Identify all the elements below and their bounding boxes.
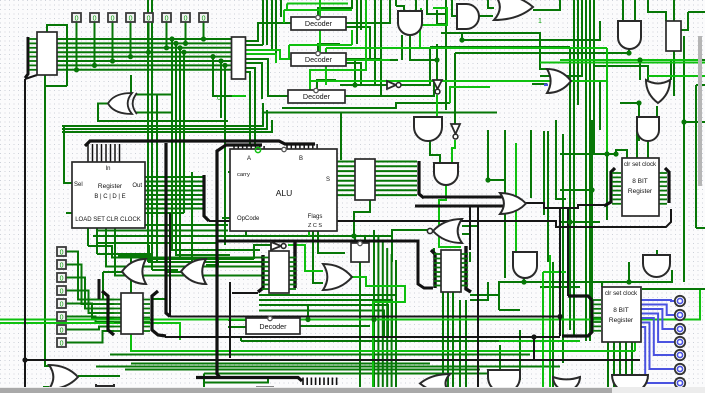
- svg-text:Decoder: Decoder: [305, 19, 333, 28]
- svg-text:0: 0: [60, 249, 64, 256]
- svg-text:0: 0: [202, 15, 206, 22]
- svg-text:Register: Register: [98, 183, 123, 190]
- svg-text:Z C S: Z C S: [308, 223, 322, 229]
- svg-text:Register: Register: [628, 188, 653, 195]
- svg-text:0: 0: [75, 15, 79, 22]
- svg-text:0: 0: [60, 327, 64, 334]
- svg-text:0: 0: [60, 288, 64, 295]
- svg-text:Decoder: Decoder: [303, 92, 331, 101]
- svg-text:A: A: [247, 156, 251, 162]
- svg-text:0: 0: [147, 15, 151, 22]
- svg-text:0: 0: [111, 15, 115, 22]
- svg-text:In: In: [105, 166, 110, 172]
- svg-text:8 BIT: 8 BIT: [632, 178, 648, 185]
- svg-text:carry: carry: [237, 172, 250, 178]
- svg-text:Decoder: Decoder: [259, 322, 287, 331]
- svg-text:0: 0: [184, 15, 188, 22]
- svg-text:ALU: ALU: [276, 188, 293, 198]
- svg-text:0: 0: [129, 15, 133, 22]
- svg-text:0: 0: [60, 301, 64, 308]
- svg-text:clr set clock: clr set clock: [624, 161, 657, 168]
- svg-text:S: S: [326, 177, 330, 183]
- svg-text:Sel: Sel: [74, 182, 83, 188]
- svg-text:Out: Out: [132, 183, 142, 189]
- svg-text:0: 0: [60, 340, 64, 347]
- svg-text:8 BIT: 8 BIT: [613, 307, 629, 314]
- svg-text:Flags: Flags: [308, 214, 323, 220]
- svg-text:1: 1: [538, 18, 542, 25]
- svg-text:OpCode: OpCode: [237, 216, 260, 222]
- svg-text:LOAD SET CLR CLOCK: LOAD SET CLR CLOCK: [75, 217, 141, 223]
- svg-text:B | C | D | E: B | C | D | E: [94, 194, 125, 200]
- svg-text:0: 0: [93, 15, 97, 22]
- svg-text:Register: Register: [609, 317, 634, 324]
- svg-text:0: 0: [217, 95, 221, 102]
- svg-text:0: 0: [60, 262, 64, 269]
- svg-text:B: B: [299, 156, 303, 162]
- svg-text:Decoder: Decoder: [305, 55, 333, 64]
- svg-text:0: 0: [165, 15, 169, 22]
- svg-text:clr set clock: clr set clock: [605, 290, 638, 297]
- svg-text:0: 0: [60, 275, 64, 282]
- svg-text:0: 0: [60, 314, 64, 321]
